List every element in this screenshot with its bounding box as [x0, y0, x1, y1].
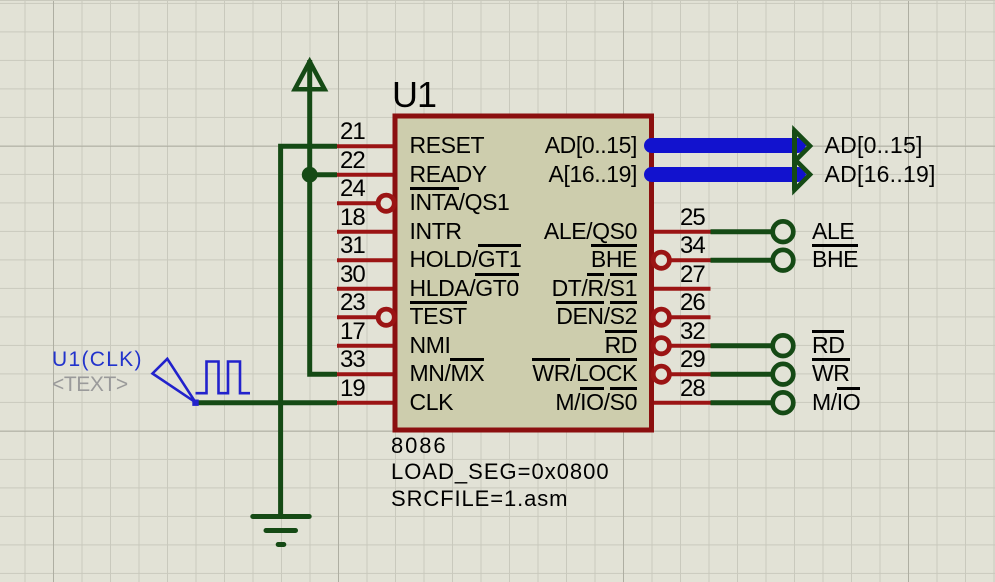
pin 32 RD stub: [671, 344, 711, 348]
pin name BHE: [591, 248, 637, 271]
pin 25 ALE stub: [654, 230, 711, 234]
chip property SRCFILE: [391, 488, 568, 510]
pin name DT/R/S1: [552, 277, 637, 300]
pin name DEN/S2: [556, 305, 637, 328]
pin number 18: [340, 206, 365, 230]
net label M/IO: [812, 391, 860, 414]
chip value 8086: [391, 435, 448, 457]
pin number 21: [340, 120, 365, 144]
pin name INTA/QS1: [410, 191, 510, 214]
wire WR terminal: [711, 372, 775, 377]
pin number 30: [340, 263, 365, 287]
net label WR: [812, 362, 850, 385]
pin 34 BHE bubble: [653, 252, 669, 268]
pin 17 NMI stub: [337, 344, 393, 348]
pin number 22: [340, 149, 365, 173]
pin number 17: [340, 320, 365, 344]
pin number 31: [340, 234, 365, 258]
bus AD[0..15]: [652, 138, 799, 153]
ground symbol: [253, 514, 309, 519]
pin 26 DEN stub: [671, 315, 711, 319]
pin 23 bubble: [378, 309, 394, 325]
pin 18 INTR stub: [337, 230, 393, 234]
net label AD[0..15]: [825, 134, 923, 157]
pin name NMI: [410, 334, 451, 357]
bus arrow AD[16..19]: [795, 159, 811, 190]
pin 21 RESET stub: [337, 144, 393, 148]
wire BHE terminal: [711, 258, 775, 263]
terminal WR: [773, 364, 794, 385]
pin number 23: [340, 291, 365, 315]
pin name TEST: [410, 305, 467, 328]
junction dot READY: [302, 167, 318, 183]
pin 29 WR stub: [671, 372, 711, 376]
pin number 19: [340, 377, 365, 401]
net label AD[16..19]: [825, 163, 936, 186]
pin 27 DT/R stub: [654, 287, 711, 291]
wire RD terminal: [711, 343, 775, 348]
pin name RD: [605, 334, 637, 357]
pin number 29: [680, 348, 705, 372]
wire M/IO terminal: [711, 400, 775, 405]
pin name ALE/QS0: [544, 220, 637, 243]
pin name AD[0..15]: [545, 134, 637, 157]
pin name RESET: [410, 134, 485, 157]
wire READY branch: [310, 172, 337, 177]
pin 24 INTA stub: [337, 201, 376, 205]
pin 29 WR bubble: [653, 366, 669, 382]
net label BHE: [812, 248, 858, 271]
pin number 33: [340, 348, 365, 372]
net label RD: [812, 334, 844, 357]
pin 34 BHE stub: [671, 258, 711, 262]
pin 31 HOLD stub: [337, 258, 393, 262]
pin 24 bubble: [378, 195, 394, 211]
terminal RD: [773, 335, 794, 356]
pin name HOLD/GT1: [410, 248, 522, 271]
clock generator symbol: [153, 359, 196, 403]
pin name INTR: [410, 220, 462, 243]
pin name A[16..19]: [549, 163, 637, 186]
chip designator U1: [392, 77, 436, 113]
pin number 34: [680, 234, 705, 258]
power terminal arrow: [295, 62, 325, 90]
pin 33 MN/MX stub: [337, 372, 393, 376]
pin 19 CLK stub: [337, 401, 393, 405]
terminal M/IO: [773, 392, 794, 413]
pin number 32: [680, 320, 705, 344]
pin name WR/LOCK: [532, 362, 637, 385]
pin number 27: [680, 263, 705, 287]
wire RESET to ground vertical: [281, 146, 337, 516]
terminal BHE: [773, 250, 794, 271]
pin name MN/MX: [410, 362, 485, 385]
pin 22 READY stub: [337, 173, 393, 177]
chip property LOAD_SEG: [391, 461, 610, 483]
pin 30 HLDA stub: [337, 287, 393, 291]
pin number 26: [680, 291, 705, 315]
pin 28 M/IO stub: [654, 401, 711, 405]
bus arrow AD[0..15]: [795, 131, 811, 162]
wire power rail vertical to MN/MX: [310, 60, 337, 374]
pin 32 RD bubble: [653, 338, 669, 354]
wire ALE terminal: [711, 229, 775, 234]
pin number 25: [680, 206, 705, 230]
pin number 28: [680, 377, 705, 401]
pin name READY: [410, 163, 487, 186]
clock source property text: [52, 374, 128, 395]
pin name CLK: [410, 391, 454, 414]
wire CLK: [196, 400, 338, 405]
bus AD[16..19]: [652, 167, 799, 182]
terminal ALE: [773, 221, 794, 242]
clock origin square: [192, 400, 198, 406]
pin 26 DEN bubble: [653, 309, 669, 325]
chip body U1: [395, 116, 652, 430]
clock source label U1(CLK): [52, 349, 143, 370]
pin 23 TEST stub: [337, 315, 376, 319]
pin number 24: [340, 177, 365, 201]
pin name HLDA/GT0: [410, 277, 519, 300]
pin name M/IO/S0: [555, 391, 637, 414]
bus arrow spine: [792, 130, 797, 191]
clock waveform: [196, 362, 251, 394]
net label ALE: [812, 220, 854, 243]
